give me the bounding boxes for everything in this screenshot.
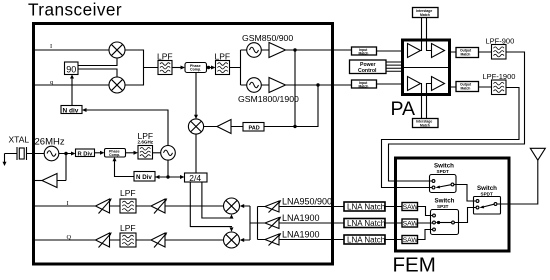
wire 2/4 LO to RX I mixer [202, 182, 234, 219]
wire phase det to mixer [194, 73, 198, 120]
amplifier TX 850/900 [269, 43, 286, 58]
interstage match (top) [413, 8, 439, 18]
phase detector (ref PLL) [105, 149, 126, 158]
switch SP3T (RX) [431, 198, 459, 235]
input match (1800) [352, 80, 377, 89]
svg-text:26MHz: 26MHz [35, 136, 65, 147]
wire osc to R Div and buffer [57, 152, 76, 181]
vga RX I 2 [151, 198, 167, 213]
svg-text:LNA Natch: LNA Natch [347, 236, 385, 245]
svg-text:Comp.: Comp. [109, 153, 120, 157]
FEM box [396, 158, 510, 251]
amplifier offset loop [217, 120, 231, 134]
wire antenna switch to antenna [497, 160, 538, 204]
oscillator 26MHz [44, 146, 59, 161]
filter LNA Natch 3 [344, 235, 385, 245]
wire RX I row [35, 205, 223, 207]
wire SAW3 to RX switch [418, 230, 433, 240]
mixer U1 (TX I) [109, 42, 125, 58]
wire mixer to divider 2/4 [195, 134, 197, 173]
vga RX I 1 [96, 198, 112, 213]
wire PA to output match 1800 to LPF-1900 [450, 86, 492, 88]
junction [207, 66, 210, 69]
label FEM [393, 254, 436, 277]
node I (TX input) [50, 43, 52, 50]
junction [64, 152, 67, 155]
wire phase det to LPF2 [207, 66, 216, 70]
filter LPF (TX baseband) [157, 51, 173, 74]
svg-text:LNA1900: LNA1900 [282, 230, 320, 240]
wire crystal [3, 154, 45, 167]
wire I to mixer [35, 49, 109, 51]
svg-text:Comp.: Comp. [190, 68, 201, 72]
wire mixers to LPF junction [125, 50, 158, 85]
wire lna2 to notch [279, 222, 344, 224]
wire LPF-900 wrap to FEM switch [389, 52, 525, 181]
amplifier PA TR [432, 44, 445, 58]
oscillator VCO 1800/1900 [247, 78, 262, 93]
junction [166, 175, 169, 178]
junction [293, 48, 296, 51]
wire VCO taps to PAD line [264, 50, 318, 127]
node Q (RX output) [67, 234, 72, 241]
wire TX switch to antenna switch [454, 185, 476, 202]
wire VCO to N div [82, 108, 168, 146]
junction [316, 83, 319, 86]
wire notch2 to SAW2 [385, 222, 402, 224]
svg-text:N div: N div [63, 107, 79, 114]
svg-text:Control: Control [358, 68, 377, 74]
wire power control bias lines [386, 62, 448, 71]
filter SAW 3 [402, 236, 418, 245]
wire 2/4 LO to RX Q mixer [190, 182, 233, 232]
wire notch3 to SAW3 [385, 239, 402, 241]
svg-text:Match: Match [461, 52, 471, 56]
svg-text:LPF: LPF [215, 51, 231, 61]
wire LPF2 to VCO branch [230, 50, 247, 85]
power control [350, 60, 387, 74]
wire input match 1800 to PA [377, 83, 405, 85]
wire VCO-amp-out 1800 [261, 84, 351, 86]
node I (RX output) [67, 200, 69, 207]
mixer RX Q [224, 232, 240, 248]
wire buffer out [35, 180, 42, 182]
svg-text:Match: Match [420, 13, 430, 17]
svg-text:LNA Natch: LNA Natch [347, 219, 385, 228]
filter LPF-900 [486, 37, 515, 60]
label Transceiver [28, 0, 122, 19]
svg-text:Match: Match [420, 123, 430, 127]
divider N Div [134, 172, 155, 182]
svg-text:SAW: SAW [403, 204, 419, 211]
phase shifter 90 [65, 62, 79, 75]
oscillator VCO 2.6G [161, 146, 176, 161]
lna LNA1900 (low) [265, 230, 320, 246]
wire top interstage [421, 18, 432, 51]
switch SPDT (antenna) [474, 185, 501, 214]
divider 2/4 [185, 173, 208, 183]
svg-text:2/4: 2/4 [189, 173, 201, 183]
svg-text:LPF: LPF [120, 188, 136, 198]
filter LPF (RX I) [120, 188, 136, 213]
wire lna1 to notch [279, 206, 344, 208]
svg-text:LNA1900: LNA1900 [282, 213, 320, 223]
filter SAW 1 [402, 203, 418, 212]
wire VCO-amp-out 900 [261, 49, 351, 51]
vga RX Q 1 [96, 232, 112, 247]
mixer U2 (TX Q) [109, 77, 125, 93]
svg-text:90: 90 [66, 65, 76, 75]
label 26MHz [35, 136, 65, 147]
wire SAW1 to RX switch [418, 207, 433, 216]
label GSM1800/1900 [238, 94, 299, 104]
wire bottom interstage [421, 84, 432, 119]
svg-text:N Div: N Div [136, 174, 152, 181]
interstage match (bottom) [413, 119, 439, 128]
svg-text:I: I [50, 43, 52, 50]
wire LPF to VCO [153, 152, 161, 154]
filter LPF (TX loop) [215, 51, 231, 74]
label XTAL [9, 135, 30, 145]
wire notch1 to SAW1 [385, 206, 402, 208]
input match (900) [352, 47, 377, 56]
svg-text:LPF: LPF [120, 223, 136, 233]
transceiver box [34, 24, 333, 265]
output match (900) [456, 48, 479, 58]
amplifier PA BR [432, 77, 445, 91]
svg-text:FEM: FEM [393, 254, 436, 277]
wire 90 to mixer I LO [78, 58, 117, 66]
filter LPF 2.6GHz [138, 131, 154, 159]
amplifier TX 1800/1900 [269, 78, 286, 93]
output match (1800) [456, 82, 479, 92]
wire RX switch to antenna switch [454, 208, 476, 223]
wire q to mixer [35, 84, 109, 86]
wire SAW2 to RX switch [418, 222, 433, 225]
svg-text:GSM850/900: GSM850/900 [242, 33, 293, 43]
svg-text:LPF: LPF [157, 51, 173, 61]
svg-text:SAW: SAW [403, 221, 419, 228]
svg-text:Transceiver: Transceiver [28, 0, 122, 19]
svg-text:SP3T: SP3T [437, 204, 449, 209]
wire RX Q row [35, 239, 223, 241]
svg-text:2.6GHz: 2.6GHz [138, 140, 154, 145]
svg-text:Match: Match [359, 52, 369, 56]
mixer RX I [224, 198, 240, 214]
switch SPDT (TX) [430, 163, 457, 193]
wire input match 900 to PA [377, 50, 405, 52]
filter LNA Natch 2 [344, 219, 385, 229]
wire mixer-amp-PAD [204, 126, 244, 128]
wire phase det to LPF [126, 151, 139, 155]
amplifier PA BL [408, 77, 421, 91]
phase detector (TX loop) [185, 63, 207, 73]
wire VCO/Ndiv node to 2/4 [155, 160, 185, 179]
svg-text:LNA950/900: LNA950/900 [282, 197, 332, 207]
svg-text:PA: PA [391, 98, 416, 120]
node q (TX input) [50, 79, 54, 86]
lna LNA950/900 [265, 197, 332, 213]
svg-text:GSM1800/1900: GSM1800/1900 [238, 94, 299, 104]
svg-text:XTAL: XTAL [9, 135, 30, 145]
divider R Div [76, 149, 95, 158]
svg-text:Match: Match [359, 85, 369, 89]
svg-text:LNA Natch: LNA Natch [347, 203, 385, 212]
divider N div [61, 106, 82, 115]
filter SAW 2 [402, 219, 418, 228]
svg-text:PAD: PAD [249, 126, 260, 132]
wire LPF-1900 wrap to FEM switch [382, 88, 520, 188]
wire N Div to phase det [113, 157, 135, 177]
antenna [530, 148, 545, 160]
lna LNA1900 [265, 213, 320, 229]
oscillator VCO 850/900 [247, 43, 262, 58]
svg-text:SPDT: SPDT [481, 192, 493, 197]
vga RX Q 2 [151, 232, 167, 247]
wire PA to output match 900 to LPF-900 [450, 51, 492, 53]
junction [293, 125, 296, 128]
svg-text:SAW: SAW [403, 237, 419, 244]
svg-text:R Div: R Div [78, 152, 94, 158]
label PA [391, 98, 416, 120]
wire 90 to mixer Q LO [78, 69, 117, 77]
wire N div to 90 [70, 75, 74, 107]
wire LNA node to RX mixers [240, 204, 265, 242]
PA box [403, 40, 450, 95]
crystal X1 [17, 147, 27, 160]
wire LPF to phase det [172, 66, 185, 70]
wire lna3 to notch [279, 239, 344, 241]
label GSM850/900 [242, 33, 293, 43]
amplifier ref buffer [42, 174, 57, 188]
svg-text:Match: Match [461, 86, 471, 90]
mixer U3 (offset PLL) [188, 119, 203, 134]
wire R Div to phase det [95, 151, 105, 155]
filter LNA Natch 1 [344, 202, 385, 212]
svg-text:SPDT: SPDT [437, 169, 449, 174]
attenuator PAD [243, 123, 264, 132]
amplifier PA TL [408, 44, 421, 58]
filter LPF-1900 [483, 72, 516, 95]
filter LPF (RX Q) [120, 223, 136, 247]
